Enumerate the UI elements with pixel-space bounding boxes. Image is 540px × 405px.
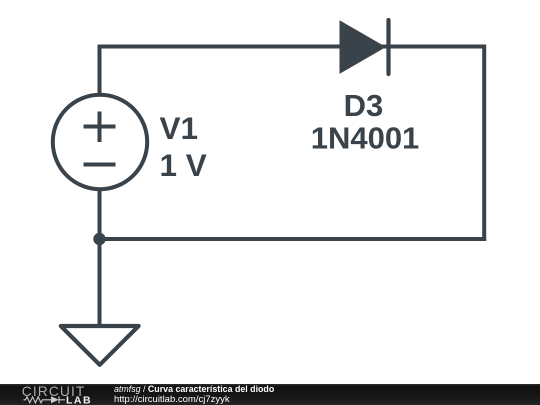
svg-text:LAB: LAB [66, 394, 92, 405]
diode D3 [340, 20, 389, 74]
footer bar [0, 384, 540, 405]
wire: V1 top stub [98, 47, 102, 95]
CircuitLab logo: diode glyph [51, 396, 59, 403]
wire: top horizontal to diode and right corner [98, 45, 485, 49]
svg-text:1N4001: 1N4001 [311, 121, 420, 156]
svg-text:D3: D3 [344, 88, 384, 123]
voltage source V1 [53, 95, 147, 189]
svg-text:http://circuitlab.com/cj7zyyk: http://circuitlab.com/cj7zyyk [114, 394, 230, 405]
svg-text:atmfsg / Curva característica: atmfsg / Curva característica del diodo [114, 384, 275, 394]
svg-text:V1: V1 [160, 110, 199, 146]
svg-text:1 V: 1 V [160, 147, 207, 183]
CircuitLab logo: resistor zigzag and wire [24, 396, 66, 403]
wire: bottom horizontal from junction [100, 237, 487, 241]
ground [61, 326, 139, 365]
wire: right vertical [482, 45, 486, 242]
node junction dot [93, 233, 105, 245]
wire: V1 bottom to ground [98, 190, 102, 326]
